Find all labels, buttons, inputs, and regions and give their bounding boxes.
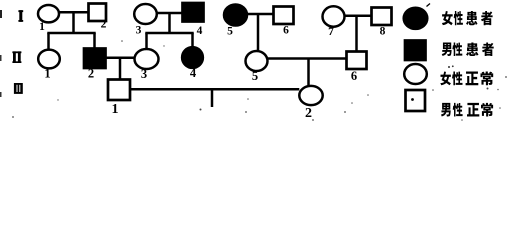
svg-text:4: 4 xyxy=(190,66,197,80)
svg-text:2: 2 xyxy=(305,106,312,121)
svg-text:4: 4 xyxy=(197,25,203,37)
svg-text:3: 3 xyxy=(136,25,142,37)
svg-text:6: 6 xyxy=(283,25,289,37)
svg-text:3: 3 xyxy=(141,67,147,81)
svg-text:1: 1 xyxy=(44,67,50,81)
svg-text:1: 1 xyxy=(112,102,119,117)
svg-text:1: 1 xyxy=(39,21,45,33)
svg-text:5: 5 xyxy=(227,26,233,38)
svg-text:2: 2 xyxy=(101,19,107,31)
svg-text:2: 2 xyxy=(88,67,94,81)
svg-text:5: 5 xyxy=(252,69,258,83)
svg-text:6: 6 xyxy=(351,69,357,83)
svg-text:7: 7 xyxy=(328,26,334,38)
svg-text:8: 8 xyxy=(380,26,386,38)
